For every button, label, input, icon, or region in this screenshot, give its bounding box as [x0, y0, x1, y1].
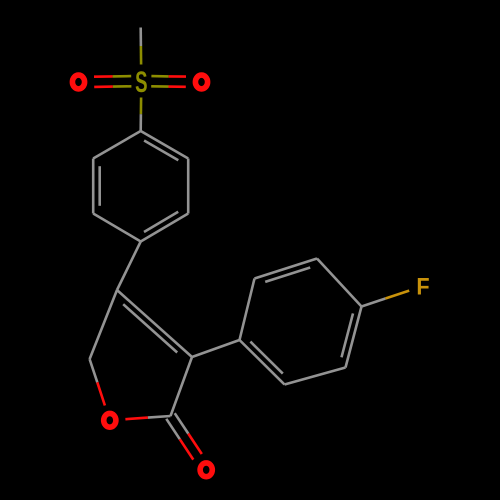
ring 1 edge V2-V3	[187, 159, 190, 214]
node O (lactone ring oxygen)	[104, 413, 116, 427]
ring 2 edge R6-R1 (double)	[240, 340, 285, 385]
furanone C4-C5 bond	[90, 290, 117, 359]
carbonyl C2=O double bond	[166, 419, 180, 439]
benzene ring 2 edge R1-R2	[240, 279, 255, 341]
furanone C2-C3 bond	[171, 357, 193, 416]
ring 2 edge R3-R4	[317, 259, 362, 307]
ring 2 edge R2-R3 (double)	[255, 259, 318, 279]
sulfonyl S=O right double bond	[151, 85, 168, 88]
ring 1 edge V3-V4 (double)	[141, 214, 189, 242]
node O (carbonyl oxygen)	[200, 463, 212, 477]
svg-text:F: F	[416, 273, 429, 300]
wire: ring1 V4 to furanone C4	[117, 242, 141, 291]
wire: methyl C-S bond	[139, 28, 142, 47]
wire: C3 to fluorophenyl R1	[192, 340, 240, 357]
node O (sulfonyl right O)	[195, 75, 207, 89]
ring 1 edge V5-V6 (double)	[92, 159, 95, 214]
wire: S to ring C1	[140, 98, 143, 115]
wire: fluorine bond R4-F	[362, 299, 386, 307]
ring 2 edge R5-R6	[285, 368, 346, 385]
benzene ring 1 edge C1-V2 (double)	[141, 131, 189, 159]
svg-text:S: S	[135, 65, 147, 99]
sulfonyl S=O left double bond	[113, 75, 132, 78]
furanone C4=C3 double bond	[117, 290, 192, 357]
furanone O1-C2 bond	[125, 418, 147, 420]
ring 1 edge V4-V5	[93, 214, 141, 242]
ring 2 edge R4-R5 (double)	[346, 307, 362, 368]
node O (sulfonyl left O)	[72, 75, 84, 89]
ring 1 edge V6-C1	[93, 131, 141, 159]
furanone C5-O1 bond	[90, 359, 98, 382]
